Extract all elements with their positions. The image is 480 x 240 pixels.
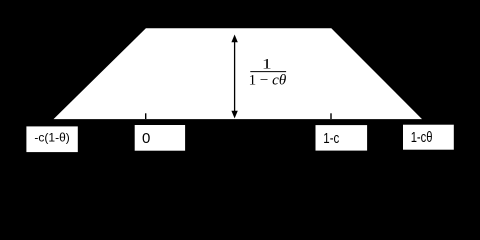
label box 0 bbox=[135, 125, 185, 151]
svg-text:1: 1 bbox=[262, 56, 272, 72]
svg-text:1-cθ: 1-cθ bbox=[411, 130, 433, 146]
label box -c(1-theta) bbox=[26, 126, 77, 152]
svg-text:1-c: 1-c bbox=[323, 130, 339, 147]
label box 1-c theta bbox=[403, 125, 454, 150]
trapezoid density shape bbox=[54, 28, 423, 119]
double-headed height arrow bbox=[231, 35, 237, 119]
svg-text:1 − cθ: 1 − cθ bbox=[249, 73, 287, 89]
label box 1-c bbox=[316, 125, 368, 151]
tick at 1-c bbox=[330, 113, 332, 119]
fraction 1/(1-c theta) bbox=[249, 56, 287, 88]
svg-text:0: 0 bbox=[142, 130, 150, 147]
svg-text:-c(1-θ): -c(1-θ) bbox=[34, 131, 69, 145]
tick at 0 bbox=[145, 113, 147, 119]
